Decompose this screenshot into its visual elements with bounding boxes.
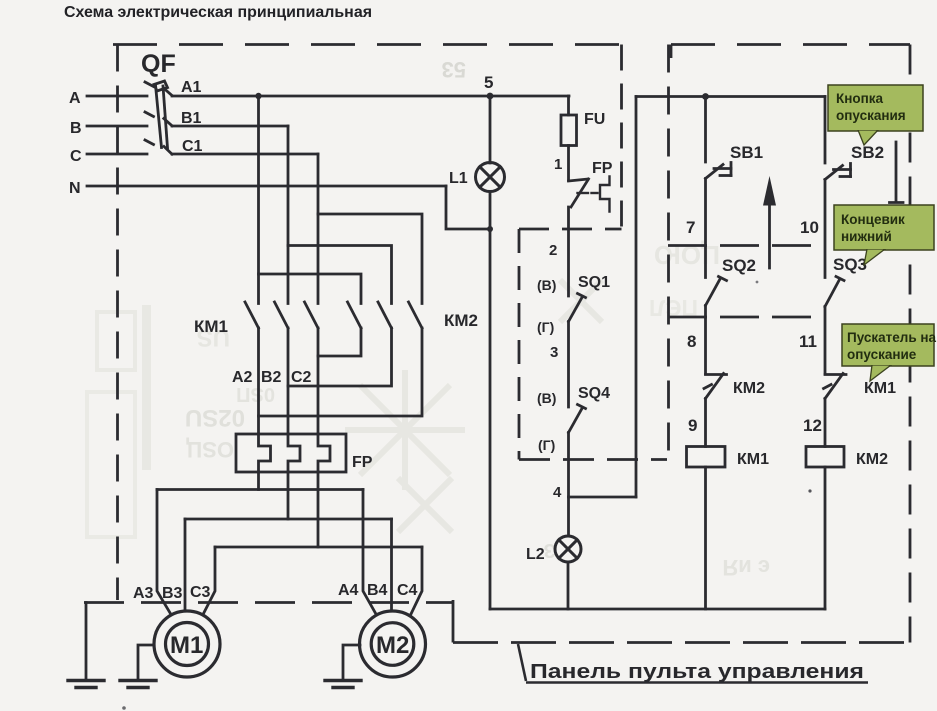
svg-text:КМ1: КМ1	[737, 451, 769, 468]
wire A2	[257, 328, 260, 434]
wire C2	[317, 328, 320, 434]
svg-text:КМ2: КМ2	[444, 311, 478, 330]
wire rail to SB1	[704, 97, 707, 163]
wire A1 jog to KM2 pole 4	[259, 274, 362, 304]
svg-text:Кнопка: Кнопка	[836, 91, 884, 106]
wire B4 to M2	[390, 519, 393, 611]
svg-text:12: 12	[803, 416, 822, 435]
svg-text:11: 11	[799, 332, 817, 351]
svg-text:SB2: SB2	[851, 143, 884, 162]
dashed border panel top-left stub	[670, 45, 673, 59]
ground lead M1	[138, 645, 154, 680]
wire rail to SB2	[824, 97, 827, 164]
scan speck 1	[808, 489, 811, 492]
wire KM2 pole 5 to B2	[288, 328, 392, 386]
svg-text:OSЦ: OSЦ	[186, 437, 234, 462]
svg-text:A3: A3	[133, 585, 154, 602]
contact KM1 auxiliary NC	[824, 374, 847, 399]
wire C2 tee to motors	[215, 546, 422, 549]
svg-text:9: 9	[688, 416, 697, 435]
wire phase B input	[87, 125, 147, 128]
wire node 12	[824, 399, 827, 447]
motor M2	[360, 611, 426, 677]
wire node 4 to return riser	[569, 496, 637, 499]
dashed link row 8-11	[668, 316, 824, 319]
dashed border jog	[452, 600, 455, 643]
wire B1	[172, 125, 288, 128]
dashed link SQ box left	[518, 229, 521, 460]
svg-text:SB1: SB1	[730, 143, 763, 162]
dashed link SQ box top	[519, 228, 622, 231]
node 5 junction	[487, 93, 494, 100]
svg-text:A1: A1	[181, 79, 202, 96]
FP heater element phase A	[259, 434, 271, 472]
callout box Кнопка опускания	[828, 85, 923, 145]
wire A1 to fuse FU	[567, 96, 570, 115]
ground symbol M1	[120, 681, 156, 688]
switch SQ4	[569, 405, 586, 433]
svg-text:53: 53	[442, 57, 466, 82]
svg-text:SQ4: SQ4	[578, 385, 610, 402]
dashed border outer top	[113, 43, 622, 46]
wire lamp L2 to bottom rail	[567, 562, 570, 609]
node SB1 branch junction	[702, 93, 709, 100]
wire C2 below FP	[317, 472, 320, 547]
wire phase A input	[87, 95, 147, 98]
QF linkage bar	[154, 81, 168, 148]
svg-text:B4: B4	[367, 582, 388, 599]
svg-text:5: 5	[484, 73, 493, 92]
svg-text:N: N	[69, 180, 81, 197]
svg-text:FP: FP	[352, 454, 373, 471]
svg-text:(В): (В)	[537, 390, 556, 406]
callout box Концевик нижний	[834, 205, 934, 265]
svg-text:3: 3	[550, 344, 558, 361]
svg-text:2: 2	[549, 242, 557, 259]
svg-text:4: 4	[553, 484, 562, 501]
svg-text:B2: B2	[261, 369, 282, 386]
dashed border panel bottom	[453, 641, 910, 644]
svg-text:B: B	[70, 120, 82, 137]
wire KM2 pole 6 to A2	[259, 328, 423, 416]
wire B1 drop to KM1 pole 2	[287, 126, 290, 304]
contact KM2 auxiliary NC	[704, 374, 727, 399]
push button SB1	[706, 163, 732, 179]
svg-text:КМ2: КМ2	[733, 380, 765, 397]
svg-text:A2: A2	[232, 369, 253, 386]
dashed link row 7-10	[668, 244, 824, 247]
contactor KM2 pole 4	[348, 302, 362, 328]
dashed link FU column	[620, 45, 623, 230]
dashed link SQ box bottom	[519, 458, 667, 461]
contactor KM1 pole 2	[275, 302, 289, 328]
wire node 2	[567, 207, 570, 296]
svg-text:SQ2: SQ2	[722, 256, 756, 275]
svg-text:FU: FU	[584, 111, 605, 128]
contactor KM2 pole 6	[409, 302, 423, 328]
svg-text:Схема электрическая принципиал: Схема электрическая принципиальная	[64, 4, 372, 21]
svg-text:10: 10	[800, 218, 819, 237]
circuit breaker QF pole B	[145, 112, 172, 126]
circuit breaker QF pole A	[145, 82, 172, 96]
switch SQ2	[706, 277, 727, 306]
svg-text:B3: B3	[162, 585, 183, 602]
svg-text:(Г): (Г)	[537, 319, 554, 335]
callout box Пускатель на опускание	[842, 324, 937, 381]
svg-text:0SП: 0SП	[236, 383, 275, 405]
wire neutral N	[87, 185, 446, 188]
wire C4 to M2	[411, 547, 423, 615]
motor M1	[154, 611, 220, 677]
contactor KM1 pole 3	[305, 302, 319, 328]
svg-text:A4: A4	[338, 582, 359, 599]
wire C3 to M1	[203, 547, 215, 615]
ground symbol M2	[325, 681, 361, 688]
push button SB2	[825, 164, 851, 180]
svg-text:(Г): (Г)	[538, 437, 555, 453]
FP trip mechanism	[578, 177, 610, 212]
svg-text:КМ1: КМ1	[194, 317, 228, 336]
return riser wire	[635, 97, 638, 498]
wire SB2 to SQ3	[824, 180, 827, 278]
wire A3 to M1	[157, 490, 171, 615]
svg-text:Концевик: Концевик	[841, 212, 905, 227]
coil KM1	[687, 447, 726, 468]
fuse FU	[561, 115, 577, 146]
svg-text:C2: C2	[291, 369, 312, 386]
dashed border outer bottom	[84, 601, 453, 604]
wire C1 jog to KM2 pole 6	[318, 214, 422, 304]
svg-text:Пускатель на: Пускатель на	[847, 330, 937, 345]
svg-text:(В): (В)	[537, 277, 556, 293]
circuit breaker QF pole C	[145, 140, 172, 154]
svg-text:C3: C3	[190, 584, 211, 601]
switch SQ3	[825, 277, 844, 307]
lamp L2	[555, 536, 581, 562]
wire SQ2 to KM2 contact	[704, 306, 707, 375]
svg-text:нижний: нижний	[841, 229, 892, 244]
svg-text:C4: C4	[397, 582, 418, 599]
wire coil KM2 to rail	[824, 467, 827, 609]
svg-text:L2: L2	[526, 546, 545, 563]
switch SQ1	[569, 294, 586, 322]
wire SB1 to SQ2	[704, 179, 707, 278]
ground lead left	[85, 603, 88, 681]
dashed border panel top	[671, 43, 910, 46]
svg-text:М1: М1	[170, 632, 203, 659]
svg-text:Панель пульта управления: Панель пульта управления	[530, 661, 864, 683]
contactor KM2 pole 5	[378, 302, 392, 328]
wire node 9	[704, 399, 707, 447]
node A1 junction	[255, 93, 261, 99]
svg-text:QF: QF	[141, 50, 176, 78]
contactor KM1 pole 1	[245, 302, 259, 328]
svg-text:М2: М2	[376, 632, 409, 659]
wire SQ3 to KM1 contact	[824, 307, 827, 375]
dashed border outer left	[116, 45, 119, 601]
scan speck 2	[122, 706, 126, 710]
svg-text:02SU: 02SU	[185, 404, 245, 431]
control bottom rail	[490, 608, 825, 611]
wire B2 tee to motors	[185, 518, 392, 521]
svg-text:8: 8	[687, 332, 696, 351]
wire C1 drop to KM1 pole 3	[317, 154, 320, 304]
scan speck 3	[756, 281, 759, 284]
wire C1	[172, 153, 318, 156]
svg-text:7: 7	[686, 218, 695, 237]
wire lamp L1 to bottom rail	[489, 192, 492, 610]
wire node 4	[567, 433, 570, 537]
svg-text:SQ3: SQ3	[833, 255, 867, 274]
coil KM2	[806, 447, 844, 468]
wire B2 below FP	[287, 472, 290, 519]
wire A2 tee to motors	[157, 488, 363, 491]
node L1 bottom junction	[487, 226, 493, 232]
lamp L1	[476, 163, 505, 192]
wire B1 jog to KM2 pole 5	[288, 246, 392, 304]
label panel caption	[518, 644, 868, 683]
svg-text:L1: L1	[449, 170, 468, 187]
wire FU to node 1	[567, 146, 570, 181]
svg-text:C1: C1	[182, 138, 203, 155]
svg-text:B1: B1	[181, 110, 202, 127]
ground lead M2	[343, 645, 360, 680]
wire coil KM1 to rail	[704, 467, 707, 609]
svg-text:є иЯ: є иЯ	[722, 555, 770, 580]
control top rail	[636, 95, 825, 98]
wire A4 to M2	[363, 490, 377, 616]
wire N to lamp L1 bottom	[446, 186, 490, 229]
wire B3 to M1	[184, 519, 187, 611]
contact FP trip (NC)	[569, 179, 589, 207]
svg-text:опускания: опускания	[836, 108, 906, 123]
wire phase C input	[87, 153, 147, 156]
up arrow direction mark	[763, 176, 776, 268]
svg-text:FP: FP	[592, 160, 613, 177]
svg-text:КМ1: КМ1	[864, 380, 896, 397]
wire node 3	[567, 322, 570, 408]
wire A1 drop to KM1 pole 1	[257, 96, 260, 304]
dashed link vertical mid	[667, 45, 670, 460]
svg-text:C: C	[70, 148, 82, 165]
ground symbol left	[68, 681, 104, 688]
svg-text:A: A	[69, 90, 81, 107]
thermal overload relay FP body	[236, 434, 346, 472]
wire node 5 to lamp L1	[489, 96, 492, 163]
FP heater element phase B	[288, 434, 300, 472]
wire A2 below FP	[257, 472, 260, 490]
wire KM2 pole 4 to C2	[318, 328, 361, 356]
svg-text:1: 1	[554, 156, 562, 173]
stub terminal right of SB2	[890, 142, 904, 203]
svg-text:опускание: опускание	[847, 347, 917, 362]
dashed border panel right	[909, 45, 912, 643]
svg-text:SQ1: SQ1	[578, 274, 610, 291]
svg-text:КМ2: КМ2	[856, 451, 888, 468]
FP heater element phase C	[318, 434, 330, 472]
wire B2	[287, 328, 290, 434]
wire A1	[172, 95, 569, 98]
